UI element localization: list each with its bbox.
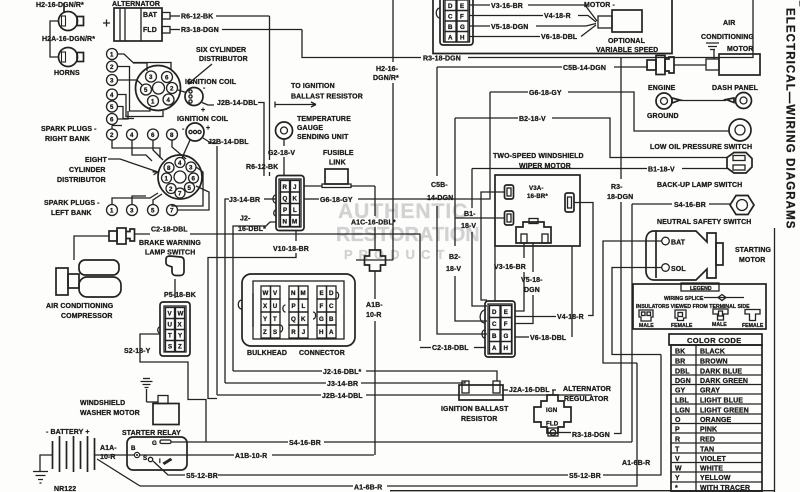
svg-text:IGN: IGN [546,407,558,414]
wire V6-18-DBL mid [515,336,529,338]
svg-text:V3A-: V3A- [529,185,544,192]
svg-text:J: J [293,184,297,191]
svg-text:2: 2 [169,186,173,193]
ignition ballast resistor [441,381,556,423]
svg-text:S: S [168,344,172,351]
right margin rule [774,228,776,492]
legend female insulator 1 [675,310,686,321]
svg-text:U: U [168,322,173,329]
starting motor [603,231,772,363]
svg-text:SOL: SOL [671,266,686,273]
svg-text:B: B [329,316,334,323]
svg-text:EIGHT: EIGHT [85,157,108,164]
svg-text:K: K [293,196,298,203]
svg-text:2: 2 [110,64,114,71]
svg-text:AIR CONDITIONING: AIR CONDITIONING [46,303,114,310]
alternator regulator [534,58,621,440]
svg-text:BRAKE WARNING: BRAKE WARNING [139,240,201,247]
svg-text:WASHER MOTOR: WASHER MOTOR [80,410,140,417]
svg-text:INSULATORS VIEWED FROM TERMINA: INSULATORS VIEWED FROM TERMINAL SIDE [636,304,750,310]
wire V5-18-DGN [469,25,490,27]
legend female insulator 2 [745,310,760,321]
svg-text:S: S [143,455,147,462]
svg-text:V: V [675,456,680,463]
svg-text:DGN: DGN [675,378,691,385]
terminal 2 [107,129,118,140]
svg-text:R3-18-DGN: R3-18-DGN [572,432,610,439]
svg-text:Q: Q [283,196,288,203]
svg-text:R6-12-BK: R6-12-BK [181,14,213,21]
svg-text:H: H [460,35,465,42]
svg-text:3: 3 [149,74,153,81]
svg-text:FLD: FLD [546,421,559,428]
legend male insulator 2 [713,309,728,320]
wire S5-12-BR [153,461,185,475]
color code table [669,334,762,492]
svg-text:3: 3 [110,78,114,85]
svg-text:REGULATOR: REGULATOR [564,396,609,403]
svg-text:SENDING UNIT: SENDING UNIT [297,134,349,141]
svg-text:LEGEND: LEGEND [690,286,712,292]
svg-text:C: C [448,14,453,21]
eight cylinder distributor [57,140,209,210]
svg-text:DARK BLUE: DARK BLUE [700,369,742,376]
svg-text:ORANGE: ORANGE [700,417,732,424]
svg-text:S2-18-Y: S2-18-Y [124,348,151,355]
svg-text:2: 2 [170,86,174,93]
svg-text:J2B-14-DBL: J2B-14-DBL [322,393,363,400]
svg-text:A1C-16-DBL*: A1C-16-DBL* [351,220,396,227]
svg-text:J2B-14-DBL: J2B-14-DBL [208,139,249,146]
wire R6-12-BK [170,15,180,17]
alternator [103,1,302,176]
svg-text:18-V: 18-V [446,266,461,273]
svg-text:BROWN: BROWN [700,359,728,366]
svg-text:E: E [460,3,464,10]
ground [141,379,153,403]
svg-text:YELLOW: YELLOW [700,475,731,482]
V wires wiper to connector [420,243,584,352]
svg-text:MOTOR -: MOTOR - [584,2,615,9]
svg-text:LEFT BANK: LEFT BANK [51,210,92,217]
svg-text:X: X [263,303,268,310]
svg-text:TO IGNITION: TO IGNITION [291,83,335,90]
svg-text:GRAY: GRAY [700,388,720,395]
svg-text:1: 1 [110,208,114,215]
svg-text:IGNITION COIL: IGNITION COIL [185,79,237,86]
svg-text:B2-18-V: B2-18-V [519,116,546,123]
svg-text:COLOR CODE: COLOR CODE [687,336,741,345]
terminal 4 [107,89,118,100]
svg-text:A1-6B-R: A1-6B-R [622,460,650,467]
svg-text:DBL: DBL [675,369,690,376]
svg-text:R3-18-DGN: R3-18-DGN [423,56,461,63]
connector D E / C F / B G / A H (top) [440,0,473,45]
svg-text:LINK: LINK [329,160,346,167]
svg-text:V: V [273,290,278,297]
bottom middle wires J2/J3/J2B [217,369,592,400]
svg-text:S5-12-BR: S5-12-BR [569,473,601,480]
battery + to A1-6B-R diagonal [97,459,140,486]
svg-text:GAUGE: GAUGE [297,125,323,132]
svg-text:COMPRESSOR: COMPRESSOR [61,313,113,320]
svg-text:L: L [293,207,297,214]
wire G2-18-V [283,139,285,146]
svg-text:S5-12-BR: S5-12-BR [186,473,218,480]
svg-text:B: B [131,445,136,452]
svg-text:B1-18-V: B1-18-V [648,167,675,174]
svg-text:C2-18-DBL: C2-18-DBL [432,345,469,352]
wire V3-16-BR [469,4,490,6]
svg-text:RED: RED [700,437,715,444]
terminal 8 [167,129,178,140]
svg-text:3: 3 [130,208,134,215]
S2-18-Y wire [124,334,206,442]
wire C2-18-DBL to the right [135,234,421,341]
terminals [505,185,514,199]
svg-text:MALE: MALE [639,323,654,329]
middle connector D E / C F / B G / A H [480,301,515,357]
svg-text:V6-18-DBL: V6-18-DBL [541,34,578,41]
svg-text:S: S [273,329,277,336]
svg-text:STARTER RELAY: STARTER RELAY [122,430,181,437]
terminal 4 [127,129,138,140]
svg-text:-: - [182,126,185,133]
pill wires [481,192,505,300]
fusible link [304,150,375,188]
svg-text:SIX CYLINDER: SIX CYLINDER [196,47,246,54]
ignition coil 2 [177,116,249,395]
wire J2-16-DBL* from connector [233,216,276,372]
svg-text:P5-18-BK: P5-18-BK [164,292,196,299]
svg-text:ALTERNATOR: ALTERNATOR [112,1,160,8]
svg-text:H2-16-DGN/R*: H2-16-DGN/R* [36,2,84,9]
svg-text:6: 6 [165,75,169,82]
svg-text:R: R [675,437,680,444]
svg-text:IGNITION COIL: IGNITION COIL [177,116,229,123]
svg-text:WIRING SPLICE: WIRING SPLICE [664,296,704,302]
svg-text:F: F [504,321,508,328]
svg-text:J2-: J2- [240,216,251,223]
svg-text:4: 4 [167,97,171,104]
wire V4-18-R mid [515,316,556,318]
svg-text:A1B-: A1B- [366,302,383,309]
svg-text:M: M [292,219,297,226]
svg-text:OPTIONAL: OPTIONAL [608,38,646,45]
svg-text:MOTOR: MOTOR [739,257,765,264]
svg-text:7: 7 [178,191,182,198]
svg-text:+: + [206,125,210,132]
svg-text:E: E [504,309,508,316]
svg-text:X: X [178,322,183,329]
svg-text:V3-16-BR: V3-16-BR [494,264,526,271]
svg-text:J3-14-BR: J3-14-BR [229,197,260,204]
svg-text:4: 4 [178,160,182,167]
wire V5-18-DGN mid [532,243,534,272]
top-left: horns [36,2,95,77]
grid 3 E D / F C / G B / H A [317,286,336,338]
svg-text:B: B [492,333,497,340]
svg-text:RIGHT BANK: RIGHT BANK [45,136,90,143]
svg-text:F: F [320,303,324,310]
svg-text:DGN/R*: DGN/R* [373,75,399,82]
svg-text:B2-: B2- [449,254,461,261]
svg-text:VARIABLE SPEED: VARIABLE SPEED [596,47,658,54]
svg-text:1: 1 [165,176,169,183]
svg-text:R: R [291,329,296,336]
svg-text:BK: BK [675,349,685,356]
svg-text:G2-18-V: G2-18-V [268,150,295,157]
svg-text:N: N [283,219,288,226]
svg-text:FLD: FLD [143,27,157,34]
terminal 6 [107,114,118,125]
wire R3-18-DGN [170,29,180,31]
svg-text:F: F [460,14,464,21]
legend box [633,283,766,329]
air conditioning compressor [46,260,121,320]
svg-text:PINK: PINK [700,427,717,434]
svg-text:R: R [283,184,288,191]
wire V6-18-DBL [469,36,540,38]
svg-text:ENGINE: ENGINE [648,85,676,92]
starter relay [122,430,187,470]
wire R3-18-DGN horizontal [302,0,753,201]
svg-text:14-DGN: 14-DGN [427,195,453,202]
svg-text:16-BR*: 16-BR* [527,193,548,200]
wire BAT [603,241,662,363]
terminal 6 [148,129,159,140]
svg-text:J3-14-BR: J3-14-BR [327,381,358,388]
horn 1 [59,3,84,31]
six cylinder distributor [107,47,248,125]
svg-text:J: J [302,329,306,336]
wire V3-16-BR mid [523,243,525,258]
temperature gauge sending unit [268,116,351,176]
C2-18-DBL splice + wire [74,227,420,342]
svg-text:V10-18-BR: V10-18-BR [273,246,309,253]
terminal 7 [167,205,178,216]
terminal 5 [107,101,118,112]
wire horn jumper H2A [50,21,59,57]
svg-text:H2-16-: H2-16- [376,66,399,73]
svg-text:G: G [460,24,465,31]
svg-text:4: 4 [110,92,114,99]
wire J3-14-BR into connector [225,197,276,383]
splice connector [365,250,386,271]
svg-text:4: 4 [130,132,134,139]
C5B-14-DGN frame wire [427,65,648,334]
svg-text:D: D [492,309,497,316]
svg-text:DASH PANEL: DASH PANEL [712,85,759,92]
svg-text:R6-12-BK: R6-12-BK [246,164,278,171]
svg-text:C: C [329,303,334,310]
svg-text:NR122: NR122 [54,486,76,492]
svg-text:T: T [168,333,172,340]
bulkhead connector [238,274,355,357]
svg-text:D: D [448,3,453,10]
svg-text:FUSIBLE: FUSIBLE [323,150,354,157]
svg-text:B: B [448,24,453,31]
terminal 2 [107,61,118,72]
svg-text:A1A-: A1A- [100,445,117,452]
svg-text:BAT: BAT [143,12,158,19]
svg-text:D: D [329,290,334,297]
svg-text:P: P [283,207,287,214]
svg-text:LOW OIL PRESSURE SWITCH: LOW OIL PRESSURE SWITCH [650,144,752,151]
svg-text:AIR: AIR [723,20,735,27]
svg-text:GROUND: GROUND [647,113,679,120]
svg-text:L: L [302,303,306,310]
svg-text:D: D [797,0,800,10]
svg-text:WIPER MOTOR: WIPER MOTOR [519,163,571,170]
svg-text:B1-: B1- [464,211,476,218]
svg-text:6: 6 [110,117,114,124]
svg-text:8: 8 [167,165,171,172]
svg-text:Z: Z [178,344,182,351]
wire to compressor [74,236,109,260]
svg-text:GY: GY [675,388,686,395]
wire V10-18-BR from connector [208,231,309,399]
windshield washer motor [80,379,179,425]
svg-text:C2-18-DBL: C2-18-DBL [151,227,188,234]
svg-text:C: C [492,321,497,328]
svg-text:G: G [152,440,157,447]
svg-text:DISTRIBUTOR: DISTRIBUTOR [57,177,106,184]
A1A-10-R battery to relay [95,445,135,461]
svg-text:J2B-14-DBL: J2B-14-DBL [217,100,258,107]
plug [516,222,551,243]
svg-text:BACK-UP LAMP SWITCH: BACK-UP LAMP SWITCH [657,182,742,189]
grid 2 N M / P L / Q K / R J [289,286,308,338]
svg-text:J2-16-DBL*: J2-16-DBL* [323,369,362,376]
svg-text:N: N [291,290,296,297]
svg-text:5: 5 [144,87,148,94]
ignition coil 1 [178,79,264,176]
svg-text:RESISTOR: RESISTOR [461,416,497,423]
svg-text:MOTOR: MOTOR [727,46,753,53]
svg-text:V: V [168,311,173,318]
svg-text:T: T [273,316,277,323]
svg-text:Y: Y [263,316,268,323]
svg-text:G: G [319,316,324,323]
svg-text:A: A [448,35,453,42]
back-up lamp switch [657,153,752,190]
svg-text:DGN: DGN [524,287,540,294]
terminal 1 [107,49,118,60]
svg-text:S4-16-BR: S4-16-BR [674,202,706,209]
svg-text:2: 2 [110,132,114,139]
svg-text:1: 1 [151,99,155,106]
svg-text:HORNS: HORNS [54,70,80,77]
svg-text:6: 6 [151,132,155,139]
splice connector [109,228,135,244]
svg-text:3: 3 [189,165,193,172]
svg-text:V3-16-BR: V3-16-BR [491,3,523,10]
svg-text:Y: Y [178,333,183,340]
svg-text:V5-18-DGN: V5-18-DGN [491,24,528,31]
svg-text:LBL: LBL [675,398,690,405]
svg-text:TAN: TAN [700,447,714,454]
svg-text:C5B-: C5B- [431,182,448,189]
svg-text:A1-6B-R: A1-6B-R [354,485,382,492]
wire C2-18-DBL mid [420,347,431,349]
H2 wire to horns [356,0,399,260]
svg-text:NEUTRAL SAFETY SWITCH: NEUTRAL SAFETY SWITCH [657,219,751,226]
svg-text:BR: BR [675,359,685,366]
svg-text:G6-18-GY: G6-18-GY [320,197,353,204]
svg-text:STARTING: STARTING [735,247,772,254]
ac ground [706,43,719,59]
svg-text:8: 8 [170,132,174,139]
svg-text:A: A [492,345,497,352]
terminal 3 [127,205,138,216]
svg-text:18-V: 18-V [461,223,476,230]
wire SOL [612,268,662,355]
svg-text:-: - [203,85,206,92]
svg-text:10-R: 10-R [366,312,382,319]
svg-text:16-DBL*: 16-DBL* [238,226,266,233]
svg-text:E: E [320,290,324,297]
svg-text:I: I [159,458,161,465]
battery [33,429,140,492]
two-speed windshield wiper motor [455,153,593,316]
svg-text:RESTORATION: RESTORATION [336,224,480,246]
grid 1 W V / X U / Y T / Z S [261,286,280,338]
wire G6-18-GY from connector [304,92,490,204]
svg-text:P: P [292,303,296,310]
svg-text:H: H [504,345,509,352]
wire B2-18-V top [446,116,727,321]
svg-text:BALLAST RESISTOR: BALLAST RESISTOR [291,94,363,101]
svg-text:O: O [675,417,681,424]
svg-text:6: 6 [192,176,196,183]
wire V4-18-R [469,15,543,17]
svg-text:A: A [329,329,334,336]
svg-text:V4-18-R: V4-18-R [544,13,571,20]
svg-text:LIGHT GREEN: LIGHT GREEN [700,408,749,415]
watermark AUTHENTIC RESTORATION PRODUCT [336,200,480,262]
spark plugs left bank [44,200,178,217]
wire A1B-10-R [140,454,235,456]
plug wires [118,54,172,119]
svg-text:V4-18-R: V4-18-R [557,314,584,321]
svg-text:ALTERNATOR: ALTERNATOR [563,386,611,393]
svg-text:BULKHEAD: BULKHEAD [247,350,287,357]
svg-text:DARK GREEN: DARK GREEN [700,378,748,385]
to ignition ballast resistor note [275,83,363,108]
svg-text:TEMPERATURE: TEMPERATURE [297,116,351,123]
svg-text:W: W [263,290,269,297]
svg-text:CONDITIONING: CONDITIONING [701,34,754,41]
distributor body [136,66,181,111]
svg-text:FEMALE: FEMALE [671,323,693,329]
svg-text:H2A-16-DGN/R*: H2A-16-DGN/R* [42,36,95,43]
svg-text:SPARK PLUGS -: SPARK PLUGS - [41,126,97,133]
svg-text:TWO-SPEED WINDSHIELD: TWO-SPEED WINDSHIELD [493,153,584,160]
svg-text:VIOLET: VIOLET [700,456,727,463]
svg-text:K: K [301,316,306,323]
legend male insulator 1 [639,310,653,321]
wire A1C-16-DBL* [351,186,396,455]
svg-text:V5-18-: V5-18- [521,277,543,284]
spark plugs right bank [41,126,178,144]
svg-text:LIGHT BLUE: LIGHT BLUE [700,398,743,405]
svg-text:Z: Z [263,329,267,336]
svg-text:G: G [504,333,509,340]
svg-text:FEMALE: FEMALE [742,323,764,329]
svg-text:W: W [178,311,184,318]
terminal 1 [107,205,118,216]
